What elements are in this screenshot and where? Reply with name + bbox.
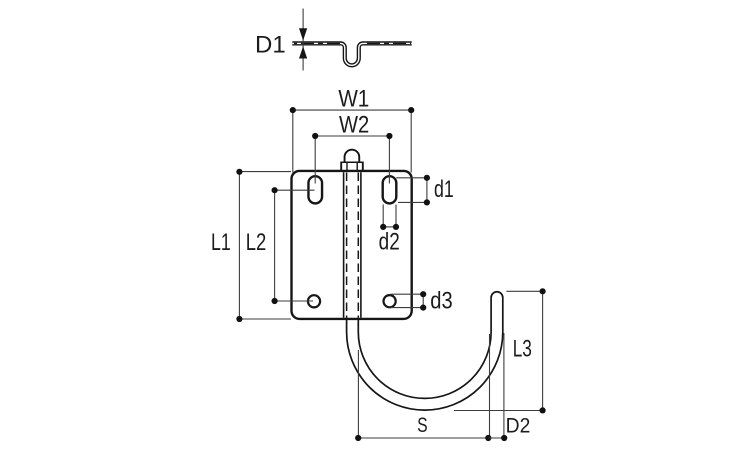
- dimension D1 (strip thickness): witness line and arrows: [299, 9, 307, 71]
- strip centerline dashes: [294, 42, 411, 44]
- dimension S (hook opening): [358, 334, 489, 438]
- dimension D2 (wire diameter): [488, 333, 504, 438]
- dimension d3 (hole diameter): [391, 294, 424, 307]
- svg-text:d2: d2: [379, 227, 400, 255]
- cross-section strip band (top view of plate with pressed channel): [292, 43, 411, 65]
- top tab: dome (bent wire end over plate top): [345, 150, 360, 163]
- hidden wire inside channel: dashed lines: [347, 173, 359, 318]
- dimension L1 (plate height): [239, 172, 291, 319]
- dimension d2 (slot width): [383, 205, 396, 227]
- svg-text:L3: L3: [513, 336, 532, 362]
- mounting plate outline: [292, 171, 412, 319]
- channel pressed rib: solid edges: [344, 172, 361, 317]
- top tab: inner wire lines: [347, 162, 357, 171]
- svg-text:D1: D1: [255, 32, 286, 59]
- round hole right: [384, 295, 396, 307]
- svg-text:L2: L2: [246, 229, 267, 256]
- hook wire (J-shape), black outline stroke: [352, 298, 497, 405]
- svg-text:L1: L1: [211, 229, 231, 255]
- slot hole left: [308, 176, 322, 203]
- dimension L2 (slot to hole): [275, 190, 315, 301]
- svg-text:W1: W1: [338, 85, 369, 112]
- svg-text:D2: D2: [506, 415, 531, 438]
- hook wire white core: [352, 298, 497, 405]
- dimension W1 (plate width): [293, 110, 411, 172]
- dimension W2 (slot spacing): [315, 136, 389, 184]
- svg-text:W2: W2: [339, 111, 369, 138]
- slot hole right: [383, 176, 397, 203]
- dimension d1 (slot length): [396, 178, 427, 203]
- round hole left: [308, 295, 320, 307]
- svg-text:S: S: [417, 413, 428, 437]
- svg-text:d1: d1: [434, 177, 454, 203]
- top tab: collar sides: [341, 162, 363, 171]
- top tab: shoulder line: [340, 161, 363, 163]
- svg-text:d3: d3: [430, 287, 452, 314]
- dimension L3 (hook depth): [454, 291, 543, 410]
